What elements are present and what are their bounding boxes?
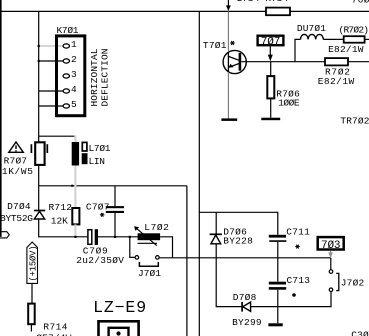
asterisk C707: [100, 213, 104, 217]
svg-text:R714: R714: [43, 322, 67, 333]
jumper J702 bracket: [336, 273, 339, 290]
junction J701 left leg: [129, 236, 131, 238]
svg-text:DEFLECTION: DEFLECTION: [100, 49, 111, 107]
wire (R702) to edge: [365, 38, 369, 40]
asterisk C713: [292, 293, 296, 297]
inductor L701 core hollow: [82, 142, 87, 151]
capacitor C709 (polarized): [88, 229, 98, 245]
wire J701 left leg down: [130, 237, 135, 258]
wire stub to pin2: [39, 60, 63, 62]
svg-text:(R7Ø2): (R7Ø2): [339, 25, 369, 36]
wire horizontal to L701: [39, 135, 76, 137]
ground C713: [268, 323, 282, 326]
wire C709 to L702: [98, 236, 138, 238]
svg-text:R7Ø7: R7Ø7: [4, 156, 28, 167]
resistor R702: [325, 58, 348, 65]
jumper J701 bracket: [139, 262, 158, 266]
resistor R706: [267, 76, 274, 98]
wire D706 branch down: [215, 212, 217, 233]
wire R712 to bottom wire (grey): [74, 224, 76, 236]
wire D704 to junction: [38, 219, 40, 237]
node left net flag (cut at edge): [0, 232, 9, 238]
ground R706: [261, 118, 280, 121]
svg-text:BY228: BY228: [223, 236, 253, 247]
ground T701: [221, 118, 237, 121]
svg-text:4: 4: [71, 84, 77, 95]
jumper J701 pins: [135, 256, 159, 260]
connector LZ box inner: [109, 328, 129, 336]
svg-text:LZ−E9: LZ−E9: [93, 298, 146, 317]
svg-text:E82/1W: E82/1W: [318, 76, 355, 87]
net flag +150V: [27, 242, 38, 283]
wire R706 to ground: [270, 98, 272, 117]
wire horizontal mid (y=185.8): [39, 185, 187, 187]
svg-text:L7Ø4 R7Ø4: L7Ø4 R7Ø4: [237, 0, 289, 4]
diode D704: [34, 211, 45, 220]
wire coil to (R702): [323, 38, 343, 40]
arrow into top bus: [226, 0, 231, 11]
wire J701 right to 703 arrow: [159, 257, 330, 259]
resistor R712: [72, 208, 79, 224]
pin 4: [63, 84, 77, 95]
wire stub to pin1 (grey): [39, 45, 63, 47]
wire horizontal deflection net (y=236.8): [39, 236, 88, 238]
svg-text:L7Ø2: L7Ø2: [144, 222, 169, 233]
junction C707 bottom: [114, 236, 116, 238]
wire J702 bottom to D708: [251, 292, 331, 307]
svg-text:ØE7/4W: ØE7/4W: [36, 333, 71, 336]
resistor R714: [28, 304, 35, 325]
wire DU701 left leg: [295, 39, 301, 61]
wire R707 to D704: [38, 165, 40, 210]
capacitor C713: [269, 282, 286, 324]
inductor L701 bar: [72, 142, 79, 166]
wire left border vertical: [0, 0, 2, 237]
wire to R706: [270, 62, 272, 76]
svg-text:2: 2: [71, 54, 77, 65]
asterisk C711: [295, 245, 299, 249]
wire R702 to right edge: [348, 61, 369, 63]
svg-text:C3Ø: C3Ø: [351, 330, 369, 336]
svg-text:LIN: LIN: [89, 156, 106, 167]
svg-text:1: 1: [71, 39, 77, 50]
svg-text:K7Ø1: K7Ø1: [57, 25, 79, 36]
wire L701 to R712 (grey): [74, 166, 76, 209]
junction pin2: [38, 60, 40, 62]
arrow 703 to wire (grey): [328, 251, 333, 258]
wire D706 down to D708 corner: [216, 244, 241, 307]
resistor R-top (on top bus): [266, 8, 290, 16]
junction grey leg: [74, 236, 76, 238]
jumper J702 pins: [329, 270, 333, 292]
svg-text:76Ø: 76Ø: [352, 0, 369, 6]
svg-text:J7Ø1: J7Ø1: [138, 268, 161, 279]
wire below R714: [30, 324, 32, 331]
svg-text:12K: 12K: [51, 216, 68, 227]
svg-text:HORIZONTAL: HORIZONTAL: [89, 48, 100, 106]
testpoint 703 box: [318, 237, 344, 252]
wire T701 emitter to ground (grey): [227, 72, 229, 118]
capacitor C707: [106, 186, 124, 237]
svg-text:T7Ø1: T7Ø1: [203, 40, 227, 51]
wire vertical main left (node to K701/R707): [38, 11, 40, 142]
svg-text:3: 3: [71, 69, 77, 80]
wire to J702 top pin: [330, 258, 332, 270]
resistor (R702): [344, 36, 365, 43]
svg-text:1ØØE: 1ØØE: [278, 98, 300, 109]
wire long vertical (x=199.3): [198, 11, 200, 336]
svg-text:E82/1W: E82/1W: [328, 44, 364, 55]
wire top horizontal bus: [0, 10, 266, 12]
wire stub to pin4: [39, 90, 63, 92]
asterisk T701: [230, 41, 235, 45]
wire stub to pin5: [39, 105, 63, 107]
wire base lead to R702: [241, 61, 325, 63]
svg-text:(+15ØV): (+15ØV): [28, 246, 38, 282]
testpoint 707 box: [258, 36, 284, 49]
transistor T701: [223, 50, 246, 73]
svg-text:TR7Ø2: TR7Ø2: [340, 116, 369, 127]
wire stem to T701 (grey): [227, 11, 229, 51]
wire vertical from mid corner down (x=186.9): [186, 186, 188, 336]
pin 2: [63, 54, 77, 65]
svg-text:BY299: BY299: [232, 317, 262, 328]
resistor R707 symbol: [31, 142, 47, 165]
wire L702 right to corner: [160, 237, 172, 258]
pin 3: [63, 69, 77, 80]
wire top bus right of resistor: [290, 10, 369, 12]
inductor L701 core solid: [82, 153, 88, 164]
svg-text:5: 5: [71, 99, 77, 110]
junction pin1: [38, 45, 40, 47]
inductor L702 (variable): [134, 226, 160, 245]
svg-text:L7Ø1: L7Ø1: [89, 143, 111, 154]
pin 5: [63, 99, 77, 110]
inductor DU701 coil: [301, 34, 324, 39]
svg-text:D7Ø4: D7Ø4: [7, 201, 31, 212]
diode D708: [242, 302, 251, 312]
pin 1: [63, 39, 77, 50]
connector LZ box outer: [99, 321, 139, 336]
wire L701 top leg (grey): [74, 136, 76, 142]
capacitor C711: [269, 235, 287, 282]
connector LZ dot: [116, 331, 120, 335]
svg-text:R712: R712: [49, 202, 73, 213]
svg-text:C713: C713: [287, 275, 311, 286]
svg-text:2u2/35ØV: 2u2/35ØV: [76, 255, 124, 266]
junction L701 leg: [71, 185, 73, 187]
svg-text:C711: C711: [286, 227, 310, 238]
wire flag to R714: [31, 283, 33, 303]
wire branch y=212.3: [199, 212, 277, 235]
connector K701 box: [57, 36, 85, 116]
svg-text:7Ø3: 7Ø3: [321, 240, 341, 252]
svg-text:1K/W5: 1K/W5: [2, 166, 33, 177]
svg-text:J7Ø2: J7Ø2: [341, 277, 365, 288]
svg-text:D7Ø8: D7Ø8: [233, 292, 257, 303]
svg-text:BYT52G: BYT52G: [0, 213, 33, 224]
svg-text:DU7Ø1: DU7Ø1: [297, 23, 326, 34]
arrow 707 to wire: [268, 46, 273, 61]
svg-text:C7Ø7: C7Ø7: [86, 201, 110, 212]
warning triangle: [9, 142, 23, 152]
diode D706: [210, 234, 222, 244]
